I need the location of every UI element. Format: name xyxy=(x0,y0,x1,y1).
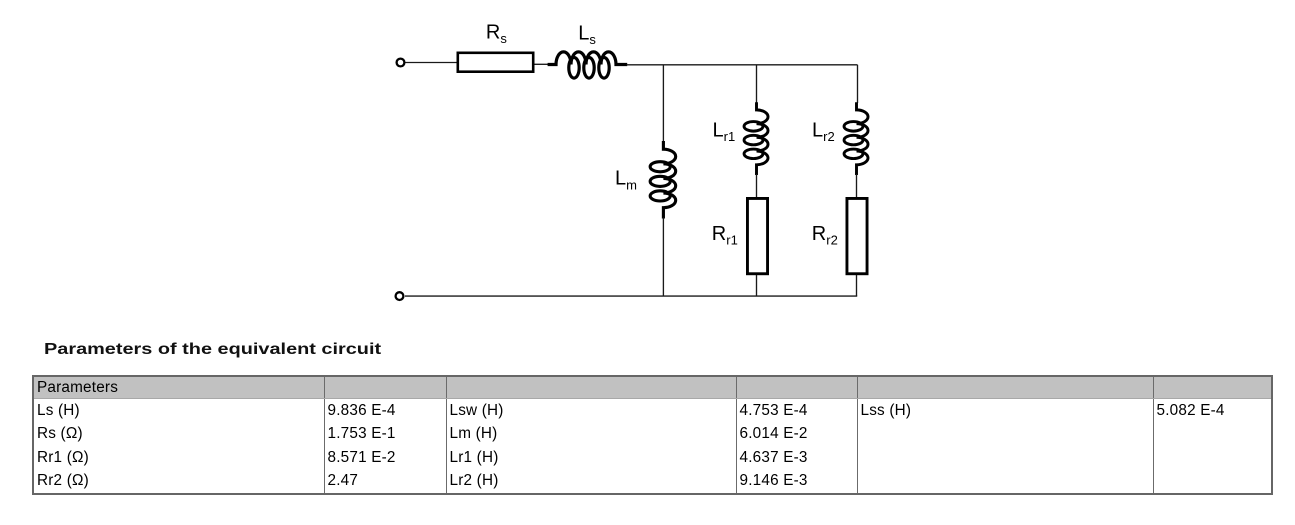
wire: top terminal to Rs xyxy=(406,62,458,64)
wire: Rr1 to bottom rail xyxy=(756,275,758,296)
resistor Rr1 xyxy=(747,198,767,273)
parameters table xyxy=(32,375,1273,495)
wire: Lr2 to Rr2 xyxy=(856,174,858,198)
svg-text:Lr2: Lr2 xyxy=(812,119,835,144)
svg-text:Rs: Rs xyxy=(486,22,507,47)
svg-text:Rr2: Rr2 xyxy=(812,223,838,248)
inductor Ls xyxy=(548,52,628,78)
output terminal (bottom) xyxy=(396,292,404,300)
wire: Rs to Ls xyxy=(535,63,550,65)
wire: node A down to Lm xyxy=(662,65,664,142)
svg-text:Ls: Ls xyxy=(578,23,596,48)
input terminal (top) xyxy=(397,59,405,67)
resistor Rs xyxy=(458,53,533,72)
inductor Lr2 xyxy=(844,102,868,175)
svg-text:Lm: Lm xyxy=(615,168,637,193)
wire: Rr2 to bottom rail corner xyxy=(856,275,858,296)
wire: node B down to Lr1 xyxy=(756,65,758,103)
wire: top-right corner down to Lr2 xyxy=(857,65,859,103)
inductor Lr1 xyxy=(744,102,768,175)
svg-text:Rr1: Rr1 xyxy=(712,223,738,248)
svg-text:Lr1: Lr1 xyxy=(713,119,736,144)
inductor Lm xyxy=(650,141,676,219)
wire: Lr1 to Rr1 xyxy=(756,174,758,198)
wire: bottom rail xyxy=(405,295,857,297)
wire: Ls to top-right corner node xyxy=(627,64,858,66)
wire: Lm to bottom rail xyxy=(662,218,664,297)
resistor Rr2 xyxy=(847,198,867,273)
table title xyxy=(44,341,381,359)
